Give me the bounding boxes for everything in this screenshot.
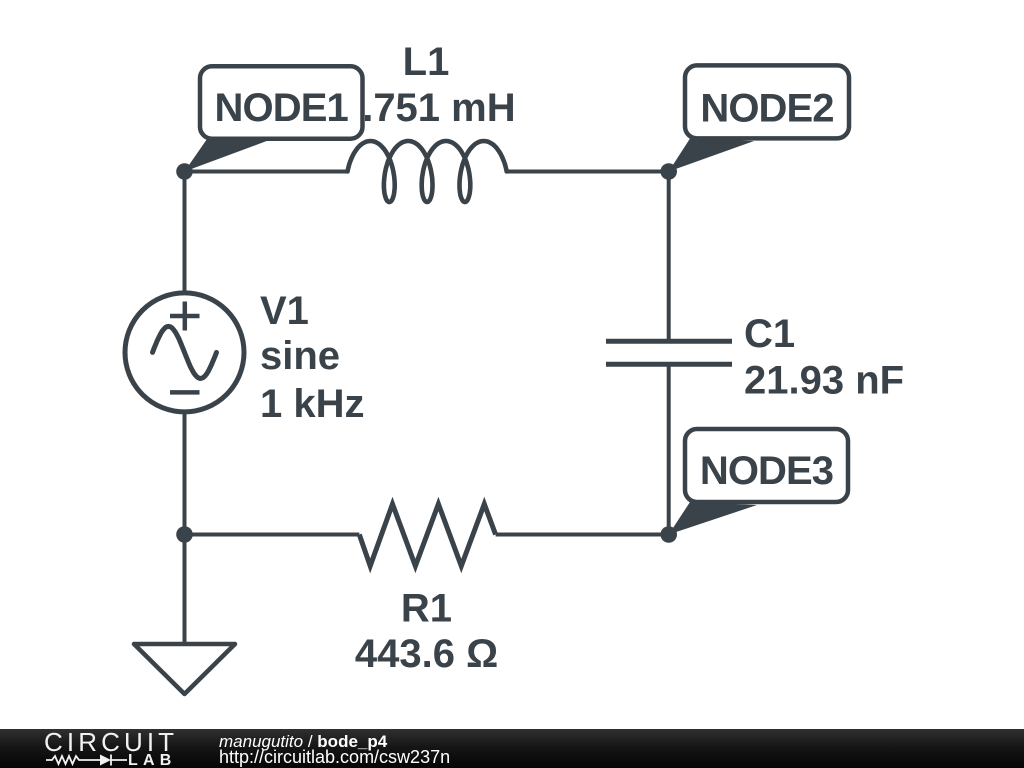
node NODE3 bubble bbox=[685, 429, 848, 502]
node NODE2 bubble bbox=[685, 65, 849, 138]
node NODE1 bubble bbox=[200, 66, 363, 138]
svg-text:443.6 Ω: 443.6 Ω bbox=[355, 632, 498, 676]
wire node1 to L1 bbox=[185, 170, 349, 174]
svg-text:21.93 nF: 21.93 nF bbox=[744, 359, 904, 403]
node NODE2 flag tail bbox=[669, 139, 754, 172]
svg-text:NODE1: NODE1 bbox=[215, 86, 349, 130]
wire L1 to node2 bbox=[507, 170, 669, 174]
wire node2 down to C1 top plate bbox=[667, 172, 671, 342]
inductor L1 coil bbox=[348, 141, 507, 202]
svg-text:sine: sine bbox=[260, 334, 340, 378]
footer title bbox=[219, 732, 387, 752]
node NODE1 flag tail bbox=[185, 139, 269, 172]
svg-text:LAB: LAB bbox=[128, 752, 176, 768]
node2 junction dot bbox=[660, 163, 677, 180]
svg-text:L1: L1 bbox=[403, 40, 450, 84]
CircuitLab logo bbox=[0, 729, 190, 768]
wire C1 bottom plate to node3 bbox=[667, 364, 671, 534]
svg-text:0.751 mH: 0.751 mH bbox=[340, 86, 516, 130]
svg-text:C1: C1 bbox=[744, 312, 795, 356]
wire V1 bottom to junction bbox=[183, 411, 187, 535]
node3 junction dot bbox=[660, 526, 677, 543]
voltage source V1 circle bbox=[125, 293, 244, 412]
svg-text:R1: R1 bbox=[401, 586, 452, 630]
svg-text:1 kHz: 1 kHz bbox=[260, 382, 365, 426]
ground symbol bbox=[134, 644, 235, 694]
svg-text:NODE2: NODE2 bbox=[700, 87, 833, 131]
svg-text:V1: V1 bbox=[260, 289, 309, 333]
V1 plus sign bbox=[170, 302, 200, 331]
node NODE3 flag tail bbox=[669, 502, 757, 535]
V1 sine glyph bbox=[153, 326, 217, 378]
capacitor C1 plates bbox=[606, 341, 732, 364]
wire junction to R1 bbox=[185, 533, 360, 537]
wire junction down to ground bbox=[183, 535, 187, 646]
wire node1 down to V1 top bbox=[183, 172, 187, 295]
bottom-left junction dot bbox=[176, 526, 193, 543]
svg-text:NODE3: NODE3 bbox=[700, 449, 833, 493]
footer bar bbox=[0, 729, 1024, 768]
wire R1 to node3 bbox=[496, 533, 669, 537]
logo resistor-diode squiggle bbox=[46, 755, 127, 766]
V1 minus sign bbox=[170, 390, 200, 395]
resistor R1 zigzag bbox=[359, 504, 495, 566]
footer url bbox=[219, 748, 450, 768]
node1 junction dot bbox=[176, 163, 193, 180]
